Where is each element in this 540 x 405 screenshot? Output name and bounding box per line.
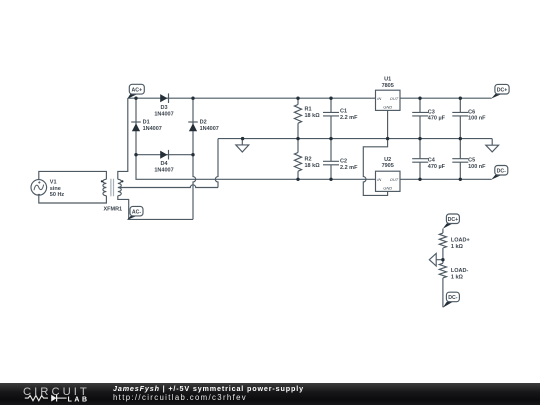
svg-text:sine: sine: [50, 186, 61, 192]
svg-text:OUT: OUT: [390, 177, 399, 182]
ground left on mid rail: [236, 139, 249, 152]
svg-text:C4: C4: [428, 158, 436, 164]
svg-text:C2: C2: [340, 158, 347, 164]
svg-text:GND: GND: [383, 105, 392, 110]
svg-text:XFMR1: XFMR1: [103, 206, 122, 212]
svg-text:470 µF: 470 µF: [428, 116, 446, 122]
flag AC-: [127, 206, 143, 220]
load branch: flag DC+: [443, 214, 460, 229]
svg-text:1N4007: 1N4007: [154, 111, 173, 117]
flag DC+ right: [491, 84, 509, 98]
diode D1: [131, 122, 141, 131]
svg-text:IN: IN: [377, 177, 381, 182]
logo zigzag wire: [25, 396, 48, 401]
wire U1 GND lead: [387, 110, 389, 138]
diode D2: [188, 122, 198, 131]
wire secondary top to AC+ node: [118, 98, 128, 179]
capacitor C2: [323, 139, 339, 180]
svg-text:DC+: DC+: [497, 88, 508, 94]
svg-text:C1: C1: [340, 108, 347, 114]
svg-text:OUT: OUT: [390, 96, 399, 101]
diode D3: [160, 93, 168, 103]
svg-text:100 nF: 100 nF: [468, 164, 486, 170]
capacitor C3: [412, 98, 428, 138]
svg-text:D3: D3: [160, 105, 167, 111]
junction dot load mid: [441, 258, 444, 261]
svg-text:100 nF: 100 nF: [468, 116, 486, 122]
wire secondary bottom to AC- corner: [118, 196, 193, 220]
source V1: [31, 180, 47, 196]
wire bridge left vertical: [135, 98, 137, 155]
svg-text:DC-: DC-: [448, 295, 457, 301]
svg-text:V1: V1: [50, 180, 57, 186]
phasing dot primary: [101, 180, 103, 182]
logo diode: [51, 395, 56, 402]
ground right at end of mid rail: [486, 139, 499, 152]
transformer XFMR1: [103, 179, 121, 195]
svg-text:470 µF: 470 µF: [428, 164, 446, 170]
svg-text:LOAD+: LOAD+: [451, 237, 470, 243]
svg-text:R1: R1: [305, 107, 312, 113]
svg-text:D2: D2: [200, 120, 207, 126]
transformer core: [111, 179, 114, 196]
svg-text:D1: D1: [143, 120, 150, 126]
wire center tap with hop over AC- wire: [120, 185, 218, 188]
svg-text:AC-: AC-: [132, 209, 141, 215]
wire V+ top rail to U1 IN: [128, 97, 376, 99]
resistor LOAD-: [439, 263, 446, 278]
wire bridge right vertical (D2): [192, 98, 194, 155]
svg-text:2.2 mF: 2.2 mF: [340, 165, 358, 171]
svg-text:1N4007: 1N4007: [143, 126, 162, 132]
svg-text:LOAD-: LOAD-: [451, 268, 469, 274]
wire AC- vertical with hop over V- rail: [193, 155, 196, 220]
svg-text:JamesFysh | +/-5V symmetrical: JamesFysh | +/-5V symmetrical power-supp…: [113, 384, 304, 393]
regulator U2 7905: [376, 171, 401, 191]
flag AC+: [127, 84, 144, 99]
footer bar: [0, 383, 540, 405]
wire center tap riser with hop over V- rail: [215, 139, 218, 188]
svg-text:7805: 7805: [382, 83, 394, 89]
wire bridge bottom: [136, 154, 193, 156]
wire U2 OUT to DC- flag: [400, 178, 492, 180]
svg-text:R2: R2: [305, 156, 312, 162]
wire LOAD+ to junction: [442, 248, 444, 263]
regulator U1 7805: [376, 90, 401, 110]
svg-text:DC-: DC-: [497, 168, 506, 174]
svg-text:U2: U2: [384, 157, 391, 163]
svg-text:1N4007: 1N4007: [200, 126, 219, 132]
resistor R1: [297, 98, 299, 104]
capacitor C5: [452, 139, 468, 180]
svg-text:1 kΩ: 1 kΩ: [451, 244, 464, 250]
capacitor C4: [412, 139, 428, 180]
phasing dot secondary: [121, 180, 123, 182]
load branch: flag DC-: [443, 292, 460, 308]
svg-text:LAB: LAB: [68, 397, 90, 404]
svg-text:DC+: DC+: [448, 217, 459, 223]
wire U1 OUT to DC+ flag: [400, 97, 492, 99]
wire primary bottom from V1 to XFMR1: [39, 195, 107, 203]
wire LOAD- to DC- flag: [442, 278, 444, 307]
svg-text:U1: U1: [384, 76, 391, 82]
svg-text:7905: 7905: [382, 163, 394, 169]
logo wire after diode: [57, 397, 67, 399]
resistor LOAD+: [439, 233, 446, 248]
svg-text:C3: C3: [428, 109, 435, 115]
svg-text:C5: C5: [468, 158, 475, 164]
flag DC- right: [491, 166, 508, 180]
svg-text:1 kΩ: 1 kΩ: [451, 274, 464, 280]
ground left-pointing at load junction: [429, 253, 443, 266]
wire V- rail from bridge to U2 IN: [136, 155, 376, 180]
svg-text:D4: D4: [160, 161, 168, 167]
junction dots: [134, 97, 137, 100]
wire U2 GND loop with hop over V- rail: [363, 139, 387, 196]
svg-text:2.2 mF: 2.2 mF: [340, 115, 358, 121]
svg-text:IN: IN: [377, 96, 381, 101]
capacitor C1: [323, 98, 339, 138]
svg-text:http://circuitlab.com/c3rhfev: http://circuitlab.com/c3rhfev: [113, 393, 247, 402]
wire GND mid rail: [218, 138, 492, 140]
svg-text:50 Hz: 50 Hz: [50, 192, 65, 198]
svg-text:GND: GND: [383, 186, 392, 191]
wire DC+ to LOAD+: [442, 229, 444, 234]
svg-text:C6: C6: [468, 109, 475, 115]
svg-text:AC+: AC+: [132, 88, 143, 94]
wire primary top from V1 to XFMR1: [39, 171, 107, 180]
capacitor C6: [452, 98, 468, 138]
diode D4: [160, 150, 168, 160]
svg-text:1N4007: 1N4007: [154, 168, 173, 174]
svg-text:18 kΩ: 18 kΩ: [305, 113, 321, 119]
resistor R2: [297, 139, 299, 153]
svg-text:18 kΩ: 18 kΩ: [305, 163, 321, 169]
